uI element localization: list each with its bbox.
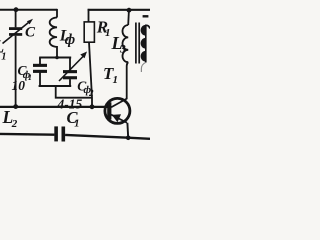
wire bottom rail left segment bbox=[0, 133, 54, 136]
transistor emitter lead with arrow bbox=[111, 115, 127, 123]
resistor R1 bbox=[84, 22, 94, 42]
wire lead from rail to capacitor C bbox=[15, 10, 17, 28]
transformer primary winding L3 bbox=[123, 25, 129, 62]
wire rail corner down to R1 bbox=[88, 9, 90, 22]
svg-text:1: 1 bbox=[28, 72, 32, 82]
transistor T1 circle bbox=[105, 98, 130, 123]
wire trimmer loop top line bbox=[39, 57, 71, 59]
capacitor Cf2 plates bbox=[63, 70, 77, 73]
node transformer primary top junction bbox=[127, 8, 132, 13]
wire from rail corner down into Lf coil bbox=[56, 9, 58, 18]
wire secondary bottom stub (faint) bbox=[141, 63, 145, 73]
svg-text:1: 1 bbox=[1, 52, 6, 63]
transistor base bar bbox=[107, 102, 111, 119]
capacitor C arrow bbox=[3, 23, 29, 44]
svg-text:10: 10 bbox=[12, 78, 26, 93]
label minus terminal bbox=[143, 15, 149, 17]
wire trimmer loop bottom line bbox=[39, 85, 72, 87]
wire left vertical below C down to mid rail bbox=[15, 36, 17, 107]
wire primary top lead bbox=[127, 11, 130, 26]
node emitter/bottom rail junction bbox=[126, 136, 131, 141]
wire primary bottom lead to collector bbox=[127, 62, 129, 99]
capacitor Cf1 plates bbox=[33, 64, 47, 67]
transistor collector lead bbox=[111, 99, 127, 108]
wire secondary top lead to edge bbox=[146, 25, 150, 28]
capacitor C (variable) plates bbox=[9, 27, 22, 30]
capacitor Cf2 arrow bbox=[59, 57, 83, 82]
wire Cf1 stubs bbox=[39, 58, 41, 65]
svg-text:1: 1 bbox=[113, 74, 119, 86]
wire Cf2 stubs bbox=[69, 58, 71, 71]
capacitor C1 plates bbox=[54, 126, 58, 141]
svg-text:1: 1 bbox=[74, 118, 79, 129]
svg-text:2: 2 bbox=[11, 118, 18, 130]
node left vertical / mid rail junction bbox=[13, 104, 18, 109]
node R1/base junction dot bbox=[90, 104, 95, 109]
node coil to loop junction bbox=[55, 56, 59, 60]
node top of C (junction dot) bbox=[14, 7, 19, 12]
wire bottom rail right segment bbox=[65, 135, 150, 139]
wire R1 lead down to mid rail bbox=[89, 42, 92, 107]
transformer core lines bbox=[135, 23, 137, 64]
wire emitter down to bottom rail bbox=[126, 123, 129, 138]
wire top-left rail bbox=[0, 9, 57, 11]
svg-text:ф: ф bbox=[65, 32, 75, 48]
svg-text:1: 1 bbox=[105, 27, 111, 39]
svg-text:3: 3 bbox=[119, 44, 126, 56]
transformer secondary winding bbox=[145, 25, 147, 63]
wire top-right supply rail bbox=[88, 9, 150, 11]
svg-text:C: C bbox=[25, 24, 36, 40]
wire from loop bottom to base junction bbox=[56, 85, 92, 98]
inductor Lf coil bbox=[50, 18, 57, 58]
wire mid rail (base line) bbox=[0, 106, 108, 108]
